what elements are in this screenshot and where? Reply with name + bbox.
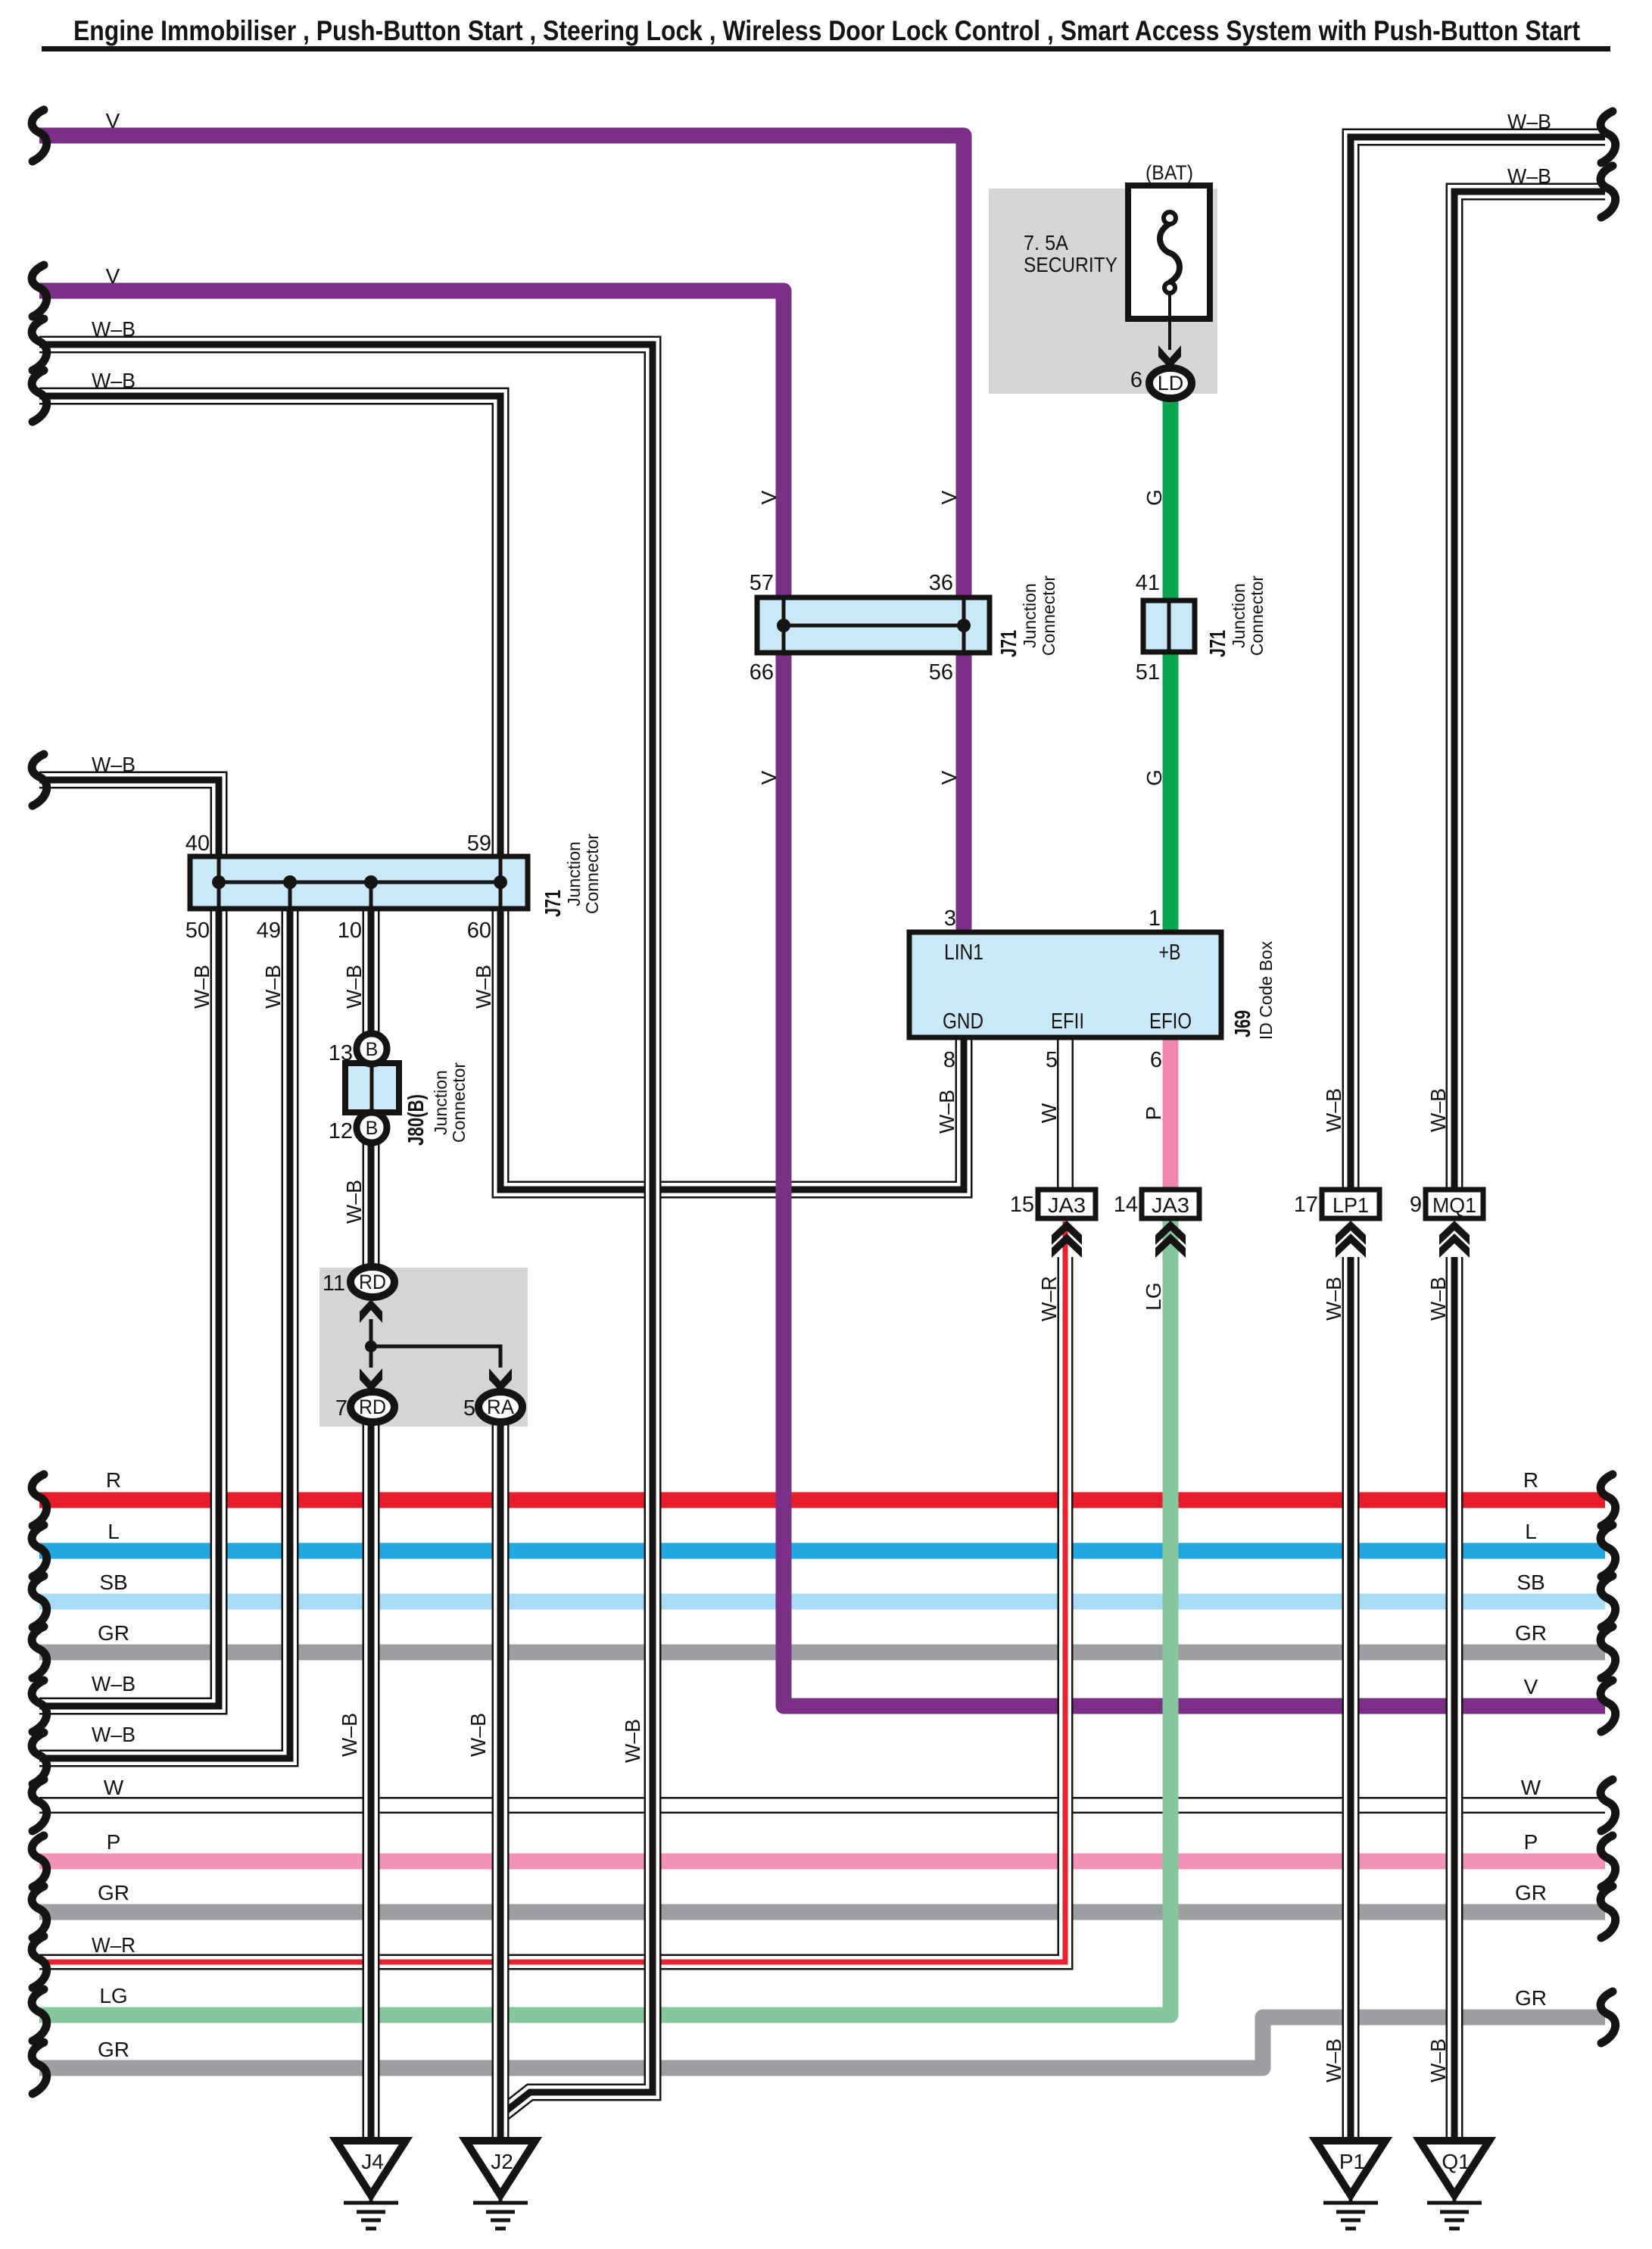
svg-text:V: V <box>937 770 961 784</box>
labels pins 41 51 <box>1136 571 1160 685</box>
svg-text:W–B: W–B <box>1507 164 1551 188</box>
svg-text:49: 49 <box>257 919 281 943</box>
wire bus L blue <box>39 1543 1605 1559</box>
svg-text:B: B <box>366 1118 379 1139</box>
svg-text:W–R: W–R <box>92 1933 136 1957</box>
label LG below 14 JA3 <box>1142 1282 1165 1310</box>
svg-text:Junction: Junction <box>564 841 584 906</box>
label W-B below 17 LP1 <box>1322 1277 1345 1321</box>
svg-text:JA3: JA3 <box>1048 1193 1086 1217</box>
svg-text:W: W <box>104 1776 124 1799</box>
svg-text:LG: LG <box>1142 1282 1165 1310</box>
junction connector J71 top <box>757 597 990 653</box>
svg-text:V: V <box>1524 1675 1538 1698</box>
svg-text:8: 8 <box>943 1048 955 1072</box>
arrow into LD <box>1158 345 1181 369</box>
wire W-B from top left edge down and into J2 ground wire <box>39 345 653 2114</box>
svg-text:EFIO: EFIO <box>1149 1009 1192 1034</box>
svg-text:5: 5 <box>463 1396 475 1421</box>
svg-text:W–B: W–B <box>92 317 136 341</box>
label pin 14 <box>1114 1193 1138 1217</box>
connector 6 LD <box>1149 368 1192 398</box>
svg-text:SECURITY: SECURITY <box>1024 253 1117 276</box>
title underline <box>42 46 1610 51</box>
label W-B above 17 LP1 <box>1322 1088 1345 1132</box>
svg-text:(BAT): (BAT) <box>1145 161 1193 184</box>
svg-text:J71: J71 <box>1206 630 1230 657</box>
svg-text:GR: GR <box>98 1881 129 1904</box>
svg-text:1: 1 <box>1149 906 1161 931</box>
svg-text:W–B: W–B <box>935 1090 958 1134</box>
wire W-B from left edge through J71 pins 40/50 to W-B bus <box>39 780 219 1706</box>
wire bus W-R white-red <box>39 1954 1065 1970</box>
svg-text:J80(B): J80(B) <box>404 1094 429 1146</box>
wire W-B from 5 RA down to ground J2 <box>492 1407 510 2141</box>
svg-text:W–B: W–B <box>261 965 285 1009</box>
svg-text:V: V <box>106 109 120 133</box>
svg-text:LD: LD <box>1158 372 1184 395</box>
svg-text:14: 14 <box>1114 1193 1138 1217</box>
label W-B second left <box>92 369 136 392</box>
labels W-B on ground drops <box>338 1713 644 1763</box>
wire bus GR grey second <box>39 1904 1605 1920</box>
svg-text:W–B: W–B <box>92 1672 136 1695</box>
svg-text:V: V <box>937 490 961 504</box>
title text <box>73 15 1580 46</box>
label W on EFII wire <box>1037 1103 1061 1123</box>
wire W-B from J71 pin 49 to second W-B bus <box>39 882 290 1758</box>
junction connector J80(B) <box>345 1034 399 1143</box>
label P on EFIO wire <box>1142 1106 1165 1121</box>
splice lines and junction in RD/RA block <box>365 1319 500 1368</box>
wire LG light green from 14 JA3 down to LG bus <box>1158 1221 1170 2015</box>
svg-text:59: 59 <box>467 831 491 856</box>
svg-text:17: 17 <box>1294 1193 1318 1217</box>
connector 14 JA3 <box>1142 1190 1199 1258</box>
label J69 designator <box>1231 940 1276 1040</box>
wire G green from fuse LD to J71 pin 41/51 and J69 +B pin 1 <box>1163 388 1179 935</box>
label pin 9 <box>1410 1193 1422 1217</box>
svg-text:W–B: W–B <box>466 1713 490 1757</box>
svg-text:ID Code Box: ID Code Box <box>1256 940 1276 1040</box>
label pin 15 <box>1010 1193 1034 1217</box>
svg-text:Q1: Q1 <box>1442 2150 1470 2173</box>
labels pins 40 59 50 49 10 60 <box>185 831 491 943</box>
arrow down into 5 RA <box>489 1368 512 1392</box>
connector 17 LP1 <box>1322 1190 1379 1258</box>
svg-text:60: 60 <box>467 919 491 943</box>
svg-text:JA3: JA3 <box>1152 1193 1189 1217</box>
svg-text:57: 57 <box>750 571 774 595</box>
svg-text:LP1: LP1 <box>1333 1193 1369 1217</box>
label W-B above 9 MQ1 <box>1426 1088 1450 1132</box>
svg-text:R: R <box>1523 1468 1538 1492</box>
svg-text:GR: GR <box>98 2038 129 2061</box>
label W-B first left <box>92 317 136 341</box>
svg-text:10: 10 <box>338 919 362 943</box>
svg-text:P: P <box>1524 1830 1538 1854</box>
junction connector J71 right small <box>1143 600 1195 652</box>
label V upper wire <box>106 109 120 133</box>
label W-B on GND pin 8 wire <box>935 1090 958 1134</box>
svg-text:Connector: Connector <box>582 834 602 914</box>
svg-text:W–B: W–B <box>92 753 136 776</box>
svg-text:P1: P1 <box>1339 2150 1365 2173</box>
wire bus R red <box>39 1493 1605 1508</box>
label J71 left designator <box>541 834 602 917</box>
svg-text:GR: GR <box>1515 1881 1547 1904</box>
svg-text:W: W <box>1037 1103 1061 1123</box>
svg-text:50: 50 <box>185 919 210 943</box>
svg-text:R: R <box>106 1468 121 1492</box>
svg-text:G: G <box>1142 489 1166 506</box>
label W-B below 9 MQ1 <box>1426 1277 1450 1321</box>
svg-text:W–B: W–B <box>1322 1277 1345 1321</box>
wire V violet upper to J71 pin 36 and J69 LIN1 pin 3 <box>39 136 964 935</box>
labels pins 3 1 8 5 6 <box>943 906 1162 1072</box>
label V second wire <box>106 264 120 288</box>
svg-text:GR: GR <box>1515 1621 1547 1645</box>
labels G on green wire <box>1142 489 1166 786</box>
svg-text:7: 7 <box>335 1396 348 1421</box>
svg-text:W–B: W–B <box>621 1719 644 1763</box>
connector 15 JA3 <box>1038 1190 1096 1258</box>
svg-text:41: 41 <box>1136 571 1160 595</box>
svg-text:GR: GR <box>98 1621 129 1645</box>
svg-text:9: 9 <box>1410 1193 1422 1217</box>
wire P pink from J69 EFIO pin 6 to 14 JA3 <box>1163 1040 1179 1190</box>
wire W-B from 7 RD down to ground J4 <box>363 1407 380 2141</box>
wire W-B from J71 pin 10 to J80(B) and 11 RD <box>363 882 380 1280</box>
svg-text:V: V <box>106 264 120 288</box>
svg-text:SB: SB <box>1516 1571 1544 1594</box>
svg-text:15: 15 <box>1010 1193 1034 1217</box>
svg-text:W–B: W–B <box>472 965 495 1009</box>
svg-text:66: 66 <box>750 660 774 685</box>
svg-text:Connector: Connector <box>1039 576 1058 656</box>
connector 5 RA <box>478 1392 522 1422</box>
svg-text:J69: J69 <box>1231 1010 1255 1037</box>
svg-text:P: P <box>1142 1106 1165 1121</box>
svg-text:J71: J71 <box>541 890 566 917</box>
label (BAT) <box>1145 161 1193 184</box>
svg-text:L: L <box>1525 1520 1537 1543</box>
svg-text:RD: RD <box>359 1271 386 1293</box>
svg-text:V: V <box>757 490 781 504</box>
labels V on vertical violet wires <box>757 490 961 784</box>
wire bus W white <box>39 1797 1605 1814</box>
svg-text:W–B: W–B <box>1507 110 1551 133</box>
svg-text:11: 11 <box>323 1271 345 1296</box>
svg-text:EFII: EFII <box>1051 1009 1084 1034</box>
wire W white from J69 EFII pin 5 to 15 JA3 <box>1057 1040 1074 1190</box>
svg-text:W–B: W–B <box>1426 1277 1450 1321</box>
svg-text:W–B: W–B <box>338 1713 361 1757</box>
wire bus LG light green <box>39 2007 1170 2023</box>
svg-text:J71: J71 <box>997 630 1021 657</box>
svg-text:LG: LG <box>99 1984 127 2007</box>
svg-text:GND: GND <box>943 1009 983 1034</box>
svg-text:W–B: W–B <box>92 1723 136 1746</box>
svg-text:W–B: W–B <box>342 965 366 1009</box>
svg-text:W–R: W–R <box>1037 1276 1061 1321</box>
svg-text:Junction: Junction <box>431 1070 450 1135</box>
wire bus P pink <box>39 1854 1605 1870</box>
label J71 right designator <box>1206 576 1267 657</box>
svg-text:Engine Immobiliser , Push-Butt: Engine Immobiliser , Push-Button Start ,… <box>73 15 1580 46</box>
svg-text:W–B: W–B <box>1426 1088 1450 1132</box>
labels W-B on P1 Q1 drops <box>1322 2038 1450 2082</box>
ground J2 <box>466 2141 535 2229</box>
svg-text:V: V <box>757 770 781 784</box>
svg-text:36: 36 <box>929 571 953 595</box>
ground P1 <box>1316 2141 1385 2229</box>
svg-text:5: 5 <box>1046 1048 1058 1072</box>
svg-text:SB: SB <box>99 1571 127 1594</box>
svg-text:+B: +B <box>1159 940 1181 965</box>
svg-text:RA: RA <box>487 1396 514 1418</box>
svg-text:40: 40 <box>185 831 210 856</box>
svg-text:L: L <box>108 1520 120 1543</box>
label pin 17 <box>1294 1193 1318 1217</box>
label J80(B) designator <box>404 1062 469 1146</box>
svg-text:Connector: Connector <box>1247 576 1267 656</box>
svg-text:G: G <box>1142 769 1166 786</box>
label J71 top designator <box>997 576 1058 657</box>
svg-text:W–B: W–B <box>92 369 136 392</box>
svg-text:B: B <box>366 1039 379 1060</box>
svg-text:7. 5A: 7. 5A <box>1024 231 1068 254</box>
svg-text:W–B: W–B <box>1322 2038 1345 2082</box>
shaded block around RD/RA splice <box>319 1268 528 1427</box>
labels pins 13 12 <box>329 1041 353 1143</box>
svg-text:W–B: W–B <box>1426 2038 1450 2082</box>
svg-text:12: 12 <box>329 1119 353 1143</box>
svg-text:Junction: Junction <box>1229 583 1248 648</box>
wire W-B from right edge to 9 MQ1 and ground Q1 <box>1454 192 1605 2141</box>
svg-text:RD: RD <box>359 1396 386 1418</box>
wire W-B from right edge to 17 LP1 and ground P1 <box>1351 137 1605 2141</box>
arrow down into 7 RD <box>360 1368 382 1392</box>
svg-text:W: W <box>1521 1776 1541 1799</box>
arrow up into 11 RD <box>360 1299 382 1323</box>
label pin 6 of LD <box>1130 368 1142 392</box>
label W-B third left <box>92 753 136 776</box>
svg-text:J4: J4 <box>361 2150 384 2173</box>
svg-text:LIN1: LIN1 <box>944 940 983 965</box>
svg-text:GR: GR <box>1515 1986 1547 2010</box>
wire W-R white-red from 15 JA3 down to W-R bus <box>1049 1221 1065 1962</box>
label W-B right second <box>1507 164 1551 188</box>
svg-text:W–B: W–B <box>342 1180 366 1224</box>
svg-text:W–B: W–B <box>190 965 214 1009</box>
junction connector J71 left <box>190 856 528 909</box>
svg-text:13: 13 <box>329 1041 353 1065</box>
wire bus GR grey <box>39 1645 1605 1661</box>
wire break marks right edge <box>1601 111 1616 2043</box>
fuse 7.5A SECURITY (BAT) <box>1128 186 1210 350</box>
wire W-B from left edge to J71 pin 59 through pin 60 to J69 GND pin 8 <box>39 396 964 1190</box>
svg-text:P: P <box>107 1830 121 1854</box>
wire break marks left edge <box>32 110 47 2094</box>
labels pins 57 36 66 56 <box>750 571 953 685</box>
component J69 ID Code Box <box>909 932 1221 1037</box>
label 7.5A SECURITY <box>1024 231 1117 276</box>
labels pins 11 7 5 <box>323 1271 475 1421</box>
label W-B right top <box>1507 110 1551 133</box>
svg-text:J2: J2 <box>491 2150 513 2173</box>
svg-text:56: 56 <box>929 660 953 685</box>
svg-text:Junction: Junction <box>1020 583 1040 648</box>
svg-text:3: 3 <box>944 906 956 931</box>
svg-text:51: 51 <box>1136 660 1160 685</box>
ground J4 <box>336 2141 406 2229</box>
labels bus names left side <box>92 1468 136 2061</box>
labels bus names right side <box>1515 1468 1547 2010</box>
wire V violet second to J71 pin 57 then V bus to right edge <box>39 291 1605 1706</box>
label W-B above 11 RD <box>342 1180 366 1224</box>
connector 9 MQ1 <box>1426 1190 1483 1258</box>
svg-text:W–B: W–B <box>1322 1088 1345 1132</box>
connector 11 RD <box>351 1267 394 1297</box>
shaded block around 7.5A SECURITY fuse <box>989 189 1217 394</box>
svg-text:6: 6 <box>1130 368 1142 392</box>
wire bus GR grey bottom with jog <box>39 2017 1605 2068</box>
ground Q1 <box>1420 2141 1489 2229</box>
wire bus SB sky blue <box>39 1594 1605 1610</box>
svg-text:6: 6 <box>1150 1048 1162 1072</box>
label W-R below 15 JA3 <box>1037 1276 1061 1321</box>
connector 7 RD <box>351 1392 394 1422</box>
svg-text:Connector: Connector <box>449 1062 469 1143</box>
labels W-B under J71 left <box>190 965 495 1009</box>
svg-text:MQ1: MQ1 <box>1432 1193 1476 1217</box>
